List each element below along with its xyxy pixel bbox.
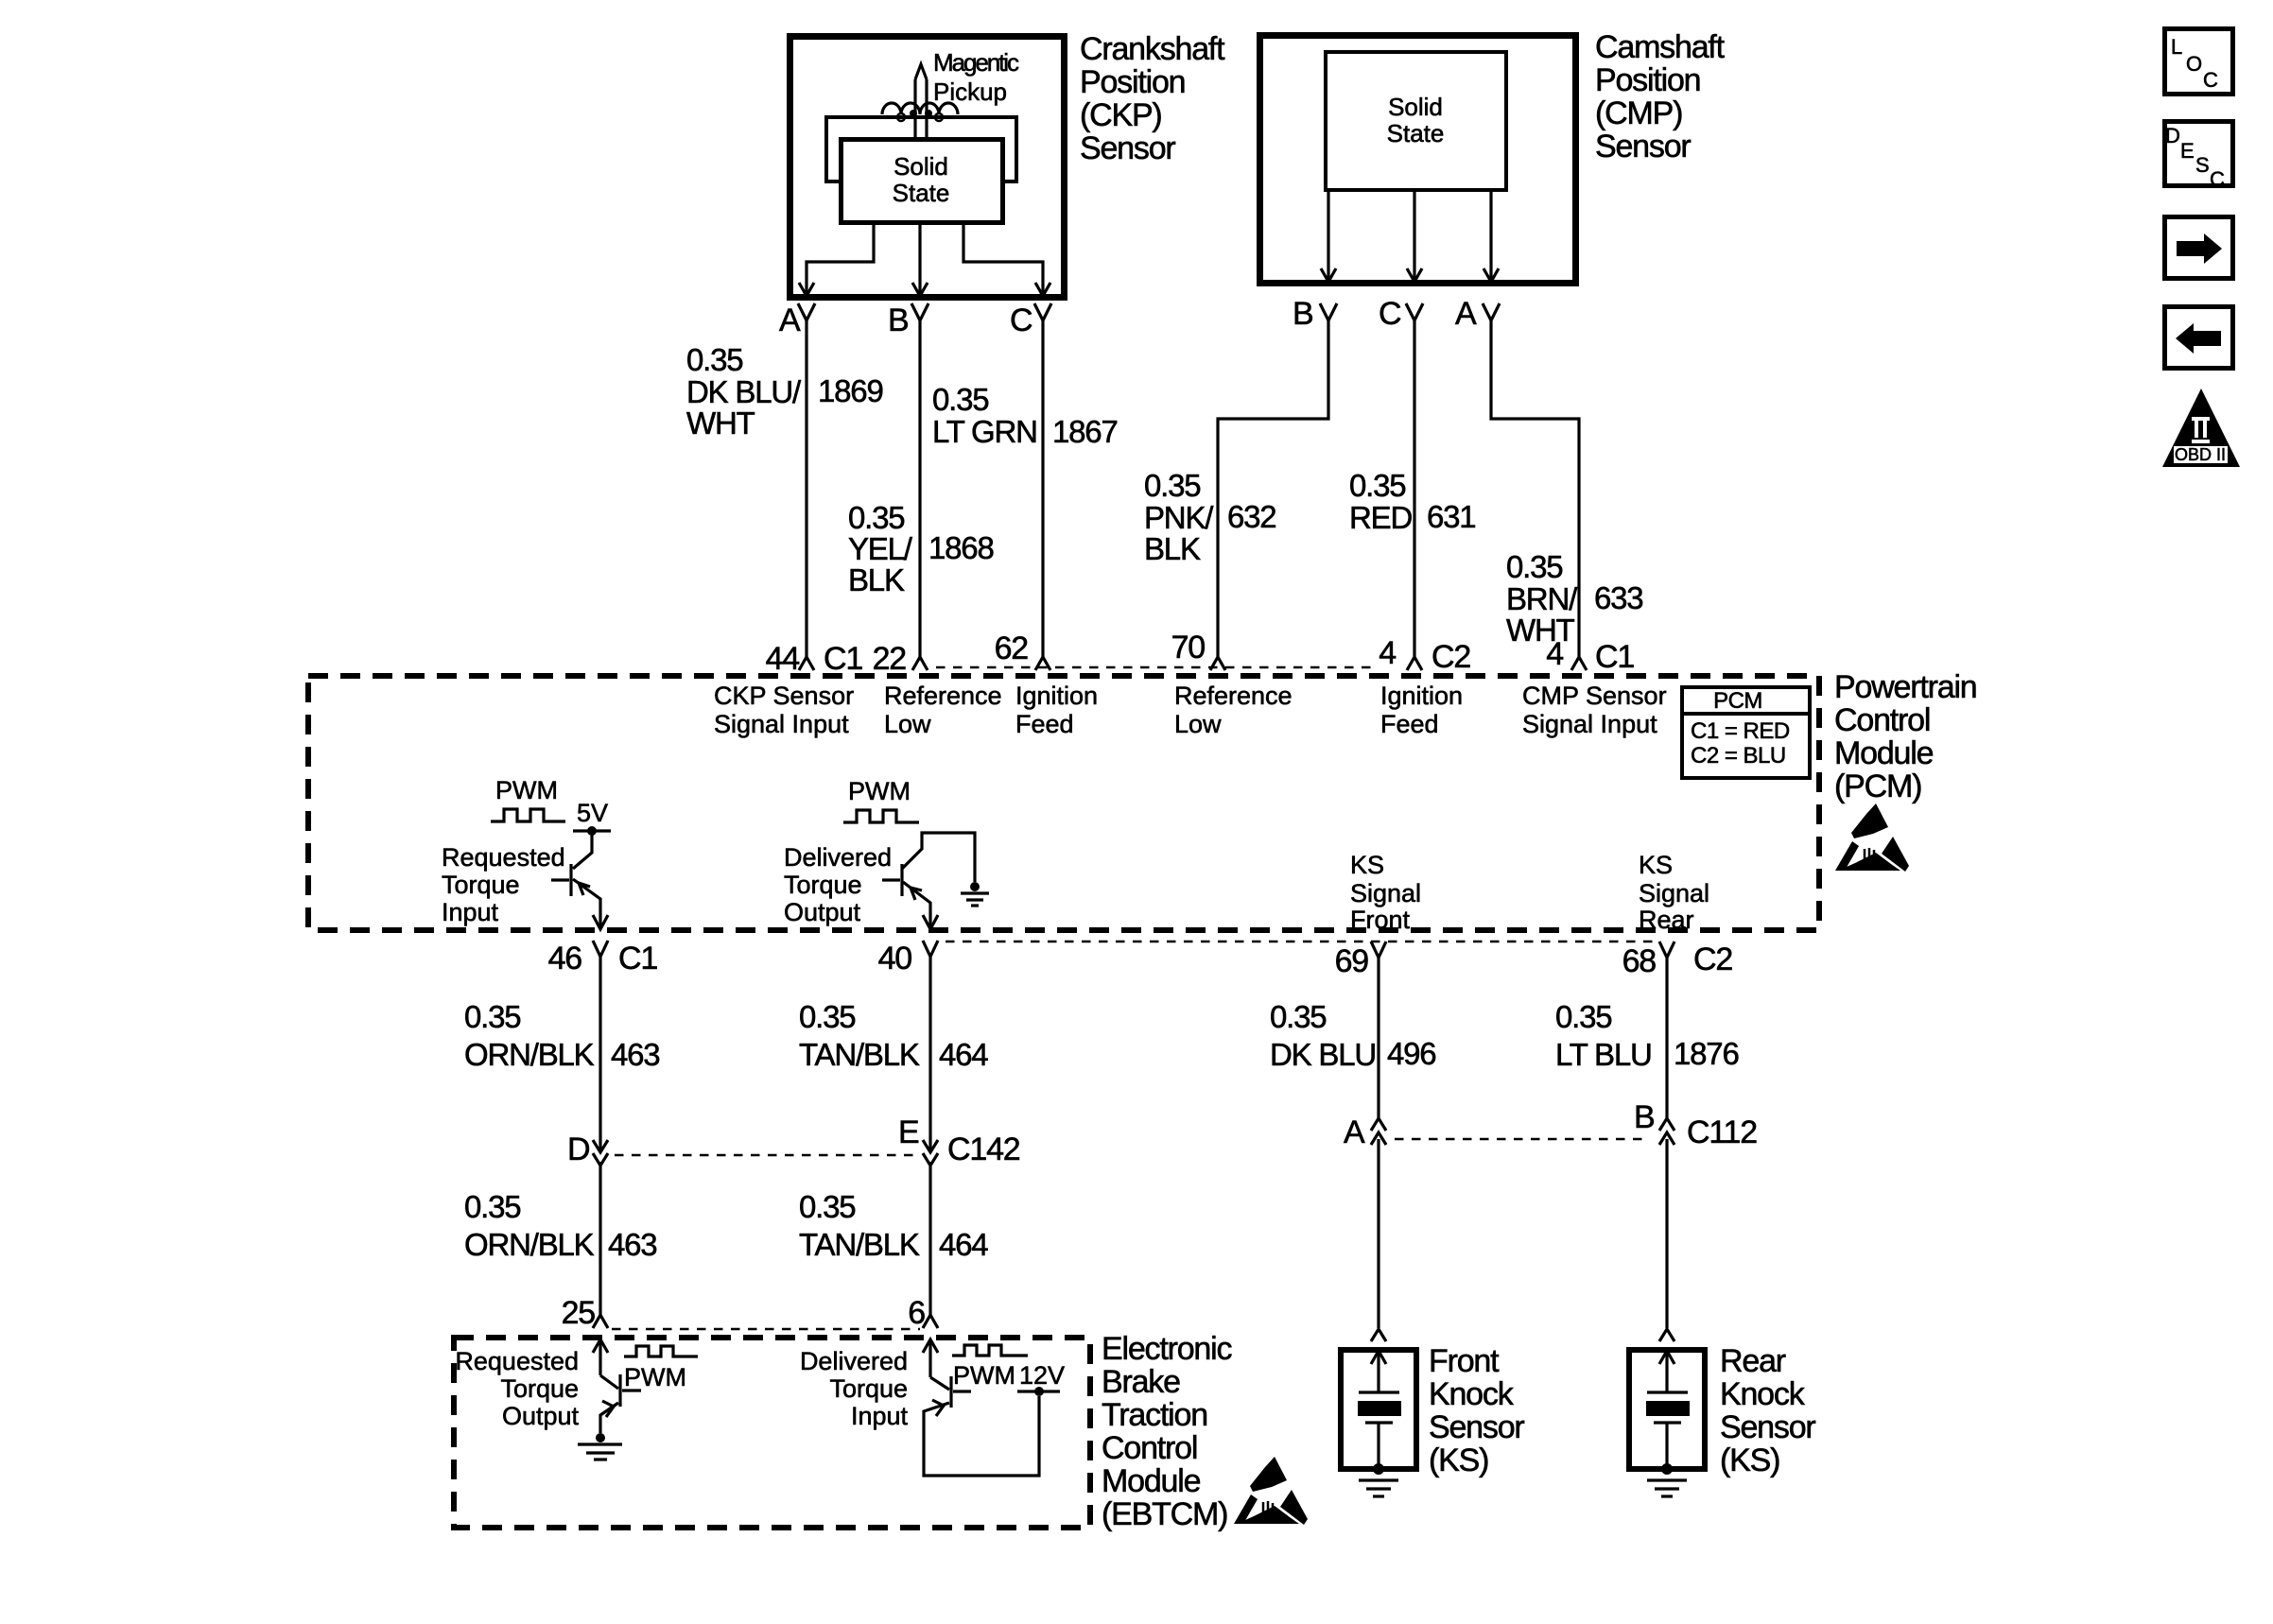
svg-text:22: 22	[873, 641, 907, 677]
svg-text:B: B	[1293, 296, 1312, 332]
PCM label KS Signal Rear	[1639, 851, 1709, 934]
svg-text:Solid: Solid	[894, 152, 948, 181]
CKP lead B inside box	[912, 225, 928, 296]
svg-text:6: 6	[908, 1295, 925, 1331]
PCM label Reference Low (left)	[884, 682, 1002, 738]
CKP pin A	[779, 302, 815, 338]
wire label 1867 LT GRN	[932, 382, 1118, 449]
PCM pin 40	[878, 941, 938, 976]
svg-text:RED: RED	[1349, 500, 1412, 535]
svg-text:C1: C1	[1595, 639, 1634, 675]
svg-text:E: E	[2180, 139, 2195, 163]
CMP pin B	[1293, 296, 1337, 332]
PWM symbol (Delivered Torque Output)	[843, 777, 919, 822]
CKP sensor outer box	[790, 37, 1065, 298]
svg-text:Input: Input	[851, 1402, 909, 1430]
PCM label CMP Sensor Signal Input	[1522, 682, 1667, 738]
wire label 463 ORN/BLK upper	[464, 999, 659, 1072]
svg-text:Feed: Feed	[1015, 710, 1074, 738]
wire label 496 DK BLU	[1270, 999, 1435, 1072]
wire label 463 ORN/BLK lower	[464, 1189, 656, 1262]
CMP pin C	[1379, 296, 1423, 332]
svg-text:0.35: 0.35	[464, 999, 520, 1034]
svg-text:Position: Position	[1080, 64, 1185, 100]
PCM label Requested Torque Input	[442, 843, 565, 926]
rear KS pin connector	[1659, 1329, 1674, 1341]
svg-text:Solid: Solid	[1388, 93, 1443, 121]
wire CMP B to PCM 70 (ckt 632)	[1218, 320, 1328, 657]
PCM label CKP Sensor Signal Input	[714, 682, 854, 738]
svg-text:Sensor: Sensor	[1595, 129, 1691, 164]
svg-text:Signal Input: Signal Input	[714, 710, 849, 738]
svg-text:CMP Sensor: CMP Sensor	[1522, 682, 1667, 710]
svg-text:Signal: Signal	[1350, 879, 1421, 907]
front knock sensor box	[1341, 1350, 1416, 1469]
PWM symbol (Requested Torque Input)	[491, 776, 565, 821]
svg-text:0.35: 0.35	[1555, 999, 1611, 1034]
wire C112 A to front KS	[1377, 1139, 1379, 1328]
PCM label Reference Low (right)	[1174, 682, 1293, 738]
transistor Q3 Requested Torque Output	[593, 1339, 641, 1433]
ground inside PCM	[961, 882, 989, 906]
CKP sensor title	[1080, 31, 1225, 166]
svg-text:69: 69	[1335, 943, 1369, 979]
svg-text:(KS): (KS)	[1720, 1443, 1779, 1478]
EBTCM connector thin dashed line	[612, 1328, 920, 1331]
svg-text:Reference: Reference	[884, 682, 1002, 710]
svg-text:68: 68	[1622, 943, 1657, 979]
PCM label KS Signal Front	[1350, 851, 1421, 934]
icon DESC	[2165, 122, 2233, 192]
svg-text:464: 464	[939, 1227, 988, 1262]
svg-text:1867: 1867	[1052, 414, 1118, 449]
CKP lead C inside box	[963, 225, 1050, 296]
CKP pin C	[1010, 302, 1051, 338]
wire C112 B to rear KS	[1665, 1139, 1668, 1328]
svg-text:PWM: PWM	[953, 1361, 1015, 1390]
svg-text:KS: KS	[1350, 851, 1384, 879]
svg-text:(CMP): (CMP)	[1595, 95, 1682, 131]
connector C112 pin B	[1634, 1099, 1757, 1150]
svg-text:Ignition: Ignition	[1380, 682, 1463, 710]
svg-text:46: 46	[548, 941, 582, 976]
svg-text:Rear: Rear	[1639, 906, 1694, 934]
wire CKP B to PCM 22 (ckt 1868)	[918, 320, 921, 657]
svg-text:BRN/: BRN/	[1506, 581, 1578, 616]
PWM symbol EBTCM left	[624, 1346, 698, 1391]
svg-text:Delivered: Delivered	[800, 1347, 908, 1375]
CMP lead A inside box	[1484, 192, 1499, 282]
svg-text:1869: 1869	[818, 373, 883, 408]
rear KS title	[1720, 1343, 1815, 1478]
icon arrow left	[2165, 307, 2233, 369]
svg-text:0.35: 0.35	[799, 999, 855, 1034]
svg-text:Rear: Rear	[1720, 1343, 1786, 1379]
svg-text:Front: Front	[1429, 1343, 1500, 1379]
svg-text:C: C	[2210, 167, 2225, 191]
CKP magnetic pickup probe	[915, 64, 927, 139]
svg-text:A: A	[1455, 296, 1477, 332]
svg-text:Ignition: Ignition	[1015, 682, 1098, 710]
connector C142 dashed line	[615, 1154, 919, 1157]
CMP lead C inside box	[1407, 192, 1422, 282]
svg-text:TAN/BLK: TAN/BLK	[799, 1037, 920, 1072]
svg-text:Low: Low	[1174, 710, 1222, 738]
ground rear KS	[1647, 1463, 1687, 1496]
svg-text:State: State	[893, 179, 950, 207]
PCM pin 22	[873, 641, 928, 677]
svg-text:O: O	[2186, 52, 2202, 76]
svg-text:Control: Control	[1102, 1430, 1197, 1466]
transistor Q2 Delivered Torque Output	[882, 833, 975, 929]
ESD symbol EBTCM	[1234, 1457, 1308, 1525]
svg-text:25: 25	[562, 1295, 596, 1331]
svg-text:C142: C142	[947, 1132, 1020, 1167]
svg-text:Module: Module	[1834, 735, 1934, 771]
svg-text:C112: C112	[1687, 1114, 1757, 1150]
svg-text:CKP Sensor: CKP Sensor	[714, 682, 854, 710]
wire label 631 RED	[1349, 468, 1475, 535]
PCM pin 4 C1	[1546, 636, 1634, 675]
svg-text:Knock: Knock	[1720, 1376, 1806, 1412]
svg-text:S: S	[2195, 153, 2210, 177]
svg-text:PCM: PCM	[1713, 688, 1762, 714]
svg-text:Control: Control	[1834, 702, 1930, 738]
svg-text:Low: Low	[884, 710, 931, 738]
svg-text:C1: C1	[618, 941, 657, 976]
svg-text:DK BLU: DK BLU	[1270, 1037, 1376, 1072]
svg-text:12V: 12V	[1019, 1361, 1065, 1390]
wire label 1876 LT BLU	[1555, 999, 1739, 1072]
svg-text:464: 464	[939, 1037, 988, 1072]
svg-text:C1 = RED: C1 = RED	[1691, 718, 1790, 744]
svg-text:L: L	[2171, 35, 2182, 59]
wire label 464 TAN/BLK lower	[799, 1189, 988, 1262]
svg-text:BLK: BLK	[848, 562, 905, 597]
wire label 464 TAN/BLK upper	[799, 999, 988, 1072]
svg-text:Output: Output	[502, 1402, 580, 1430]
connector C112 dashed line	[1395, 1138, 1650, 1141]
CKP solid state box	[842, 140, 1003, 223]
svg-text:LT BLU: LT BLU	[1555, 1037, 1652, 1072]
wire label 1868 YEL/BLK	[848, 500, 994, 597]
svg-text:1876: 1876	[1674, 1036, 1739, 1071]
svg-text:70: 70	[1171, 630, 1206, 665]
svg-text:631: 631	[1427, 499, 1475, 534]
svg-text:463: 463	[611, 1037, 659, 1072]
svg-text:Input: Input	[442, 898, 499, 926]
wire label 633 BRN/WHT	[1506, 549, 1642, 648]
wire 464 C142 E to EBTCM 6	[928, 1162, 931, 1316]
svg-text:ORN/BLK: ORN/BLK	[464, 1037, 595, 1072]
svg-text:Front: Front	[1350, 906, 1411, 934]
svg-text:C1: C1	[824, 641, 862, 677]
svg-text:C2: C2	[1431, 639, 1470, 675]
PCM label Ignition Feed (right)	[1380, 682, 1463, 738]
ESD symbol PCM	[1835, 803, 1909, 872]
PCM connector thin dashed line C2 top	[936, 666, 1376, 669]
svg-text:Reference: Reference	[1174, 682, 1293, 710]
connector C112 pin A	[1344, 1114, 1386, 1150]
svg-text:40: 40	[878, 941, 912, 976]
svg-text:1868: 1868	[928, 530, 994, 565]
svg-text:B: B	[1634, 1099, 1654, 1135]
svg-text:PWM: PWM	[495, 776, 558, 804]
svg-text:B: B	[888, 302, 908, 338]
svg-text:(KS): (KS)	[1429, 1443, 1488, 1478]
svg-text:TAN/BLK: TAN/BLK	[799, 1227, 920, 1262]
PCM label Delivered Torque Output	[784, 843, 892, 926]
svg-text:4: 4	[1379, 635, 1396, 671]
PCM pin 69	[1335, 942, 1386, 979]
EBTCM label Requested Torque Output	[455, 1347, 579, 1430]
wire CKP C to PCM 62 (ckt 1867)	[1041, 320, 1044, 657]
EBTCM pin 6	[908, 1295, 938, 1331]
svg-text:0.35: 0.35	[686, 342, 742, 377]
icon OBD II triangle	[2162, 389, 2240, 467]
svg-text:Feed: Feed	[1380, 710, 1439, 738]
svg-text:Knock: Knock	[1429, 1376, 1515, 1412]
CMP lead B inside box	[1321, 192, 1336, 282]
wire 463 PCM 46 to C142 D	[599, 957, 601, 1152]
front KS title	[1429, 1343, 1524, 1478]
svg-text:C: C	[2203, 68, 2218, 92]
CMP sensor title	[1595, 29, 1726, 164]
svg-text:Signal Input: Signal Input	[1522, 710, 1657, 738]
svg-text:YEL/: YEL/	[848, 531, 913, 566]
wire CKP A to PCM 44 (ckt 1869)	[805, 320, 807, 657]
svg-text:463: 463	[608, 1227, 656, 1262]
PCM pin 70	[1171, 630, 1225, 670]
svg-text:Torque: Torque	[442, 871, 520, 899]
svg-text:0.35: 0.35	[848, 500, 904, 535]
svg-text:OBD II: OBD II	[2175, 445, 2226, 464]
wire 1876 PCM 68 to rear KS	[1665, 958, 1668, 1118]
svg-text:Powertrain: Powertrain	[1834, 669, 1977, 705]
CMP solid state box	[1326, 52, 1506, 190]
CMP sensor outer box	[1260, 36, 1576, 284]
svg-text:KS: KS	[1639, 851, 1673, 879]
svg-text:PWM: PWM	[624, 1363, 686, 1391]
svg-text:BLK: BLK	[1144, 531, 1201, 566]
svg-text:62: 62	[995, 631, 1029, 666]
ground EBTCM left	[578, 1433, 622, 1460]
wire 464 PCM 40 to C142 E	[928, 957, 931, 1152]
svg-text:DK BLU/: DK BLU/	[686, 374, 802, 409]
wire CMP A to PCM 4 C1 (ckt 633)	[1491, 320, 1579, 657]
svg-text:0.35: 0.35	[932, 382, 988, 417]
svg-text:Signal: Signal	[1639, 879, 1709, 907]
wire 496 PCM 69 to front KS	[1377, 958, 1379, 1118]
PCM pin 4 C2	[1379, 635, 1470, 675]
wire 463 C142 D to EBTCM 25	[599, 1162, 601, 1316]
CKP lead A inside box	[799, 225, 874, 296]
connector C142 pin D	[567, 1132, 608, 1167]
rear knock sensor box	[1629, 1350, 1705, 1469]
svg-text:C: C	[1379, 296, 1401, 332]
icon LOC	[2165, 29, 2233, 95]
svg-text:Sensor: Sensor	[1429, 1409, 1524, 1445]
CKP pin B	[888, 302, 928, 338]
svg-text:Sensor: Sensor	[1080, 130, 1175, 166]
svg-text:ORN/BLK: ORN/BLK	[464, 1227, 595, 1262]
EBTCM pin 25	[562, 1295, 608, 1331]
svg-text:4: 4	[1546, 636, 1563, 672]
svg-text:Electronic: Electronic	[1102, 1331, 1232, 1367]
12V supply	[1017, 1361, 1065, 1396]
icon arrow right	[2165, 217, 2233, 279]
svg-text:PNK/: PNK/	[1144, 500, 1214, 535]
svg-text:Crankshaft: Crankshaft	[1080, 31, 1225, 67]
wire CMP C to PCM 4 C2 (ckt 631)	[1413, 320, 1415, 657]
svg-text:WHT: WHT	[1506, 613, 1575, 648]
svg-text:Requested: Requested	[442, 843, 565, 872]
svg-text:Output: Output	[784, 898, 861, 926]
CKP label Magentic Pickup	[933, 48, 1019, 106]
svg-text:0.35: 0.35	[1270, 999, 1326, 1034]
svg-text:0.35: 0.35	[799, 1189, 855, 1224]
svg-text:D: D	[2165, 124, 2180, 147]
svg-text:Traction: Traction	[1102, 1397, 1207, 1433]
svg-text:632: 632	[1227, 499, 1275, 534]
front KS pin connector	[1371, 1329, 1386, 1341]
PCM connector thin dashed line C2 bottom	[946, 941, 1657, 943]
svg-text:Magentic: Magentic	[933, 48, 1019, 77]
svg-text:(PCM): (PCM)	[1834, 769, 1921, 804]
svg-text:C2: C2	[1693, 942, 1732, 977]
svg-text:State: State	[1387, 119, 1445, 147]
PCM connector id box	[1682, 687, 1810, 778]
PCM pin 44 C1	[766, 641, 863, 677]
svg-text:0.35: 0.35	[1144, 468, 1200, 503]
svg-text:A: A	[1344, 1114, 1365, 1150]
EBTCM module dashed box	[454, 1338, 1090, 1528]
svg-text:D: D	[567, 1132, 589, 1167]
PCM module title	[1834, 669, 1977, 804]
svg-text:(EBTCM): (EBTCM)	[1102, 1496, 1227, 1532]
svg-text:E: E	[898, 1114, 919, 1150]
EBTCM label Delivered Torque Input	[800, 1347, 909, 1430]
CKP back rectangle	[826, 117, 1016, 181]
svg-text:PWM: PWM	[848, 777, 911, 805]
svg-text:0.35: 0.35	[1506, 549, 1562, 584]
svg-text:Camshaft: Camshaft	[1595, 29, 1726, 65]
svg-text:C2 = BLU: C2 = BLU	[1691, 743, 1786, 769]
svg-text:LT GRN: LT GRN	[932, 414, 1037, 449]
svg-text:C: C	[1010, 302, 1032, 338]
svg-text:Torque: Torque	[500, 1374, 579, 1403]
svg-text:(CKP): (CKP)	[1080, 97, 1162, 133]
svg-text:Pickup: Pickup	[933, 78, 1007, 106]
svg-text:633: 633	[1594, 580, 1642, 615]
svg-text:Requested: Requested	[455, 1347, 579, 1375]
svg-text:5V: 5V	[577, 799, 608, 827]
PCM pin 46 C1	[548, 941, 658, 976]
svg-text:WHT: WHT	[686, 406, 755, 441]
PWM symbol EBTCM right	[952, 1345, 1028, 1390]
svg-text:0.35: 0.35	[1349, 468, 1405, 503]
svg-text:44: 44	[766, 641, 800, 677]
transistor Q4 Delivered Torque Input	[923, 1339, 1039, 1476]
wire label 1869 DK BLU/WHT	[686, 342, 883, 441]
svg-text:Module: Module	[1102, 1463, 1201, 1499]
ground front KS	[1359, 1463, 1398, 1496]
transistor Q1 Requested Torque Input	[551, 831, 608, 929]
EBTCM module title	[1102, 1331, 1232, 1532]
svg-text:Brake: Brake	[1102, 1364, 1180, 1400]
PCM module dashed box	[308, 676, 1819, 930]
PCM pin 68 C2	[1622, 942, 1733, 979]
svg-text:Torque: Torque	[784, 871, 862, 899]
svg-text:Delivered: Delivered	[784, 843, 892, 872]
svg-text:496: 496	[1387, 1036, 1435, 1071]
svg-text:Position: Position	[1595, 62, 1700, 98]
connector C142 pin E	[898, 1114, 1020, 1167]
CKP pickup coil	[882, 103, 958, 121]
svg-text:0.35: 0.35	[464, 1189, 520, 1224]
CMP pin A	[1455, 296, 1500, 332]
wire label 632 PNK/BLK	[1144, 468, 1275, 566]
PCM pin 62	[995, 631, 1050, 670]
PCM label Ignition Feed (left)	[1015, 682, 1098, 738]
5V supply	[573, 799, 611, 836]
svg-text:Sensor: Sensor	[1720, 1409, 1815, 1445]
svg-text:Torque: Torque	[829, 1374, 908, 1403]
svg-text:A: A	[779, 302, 801, 338]
